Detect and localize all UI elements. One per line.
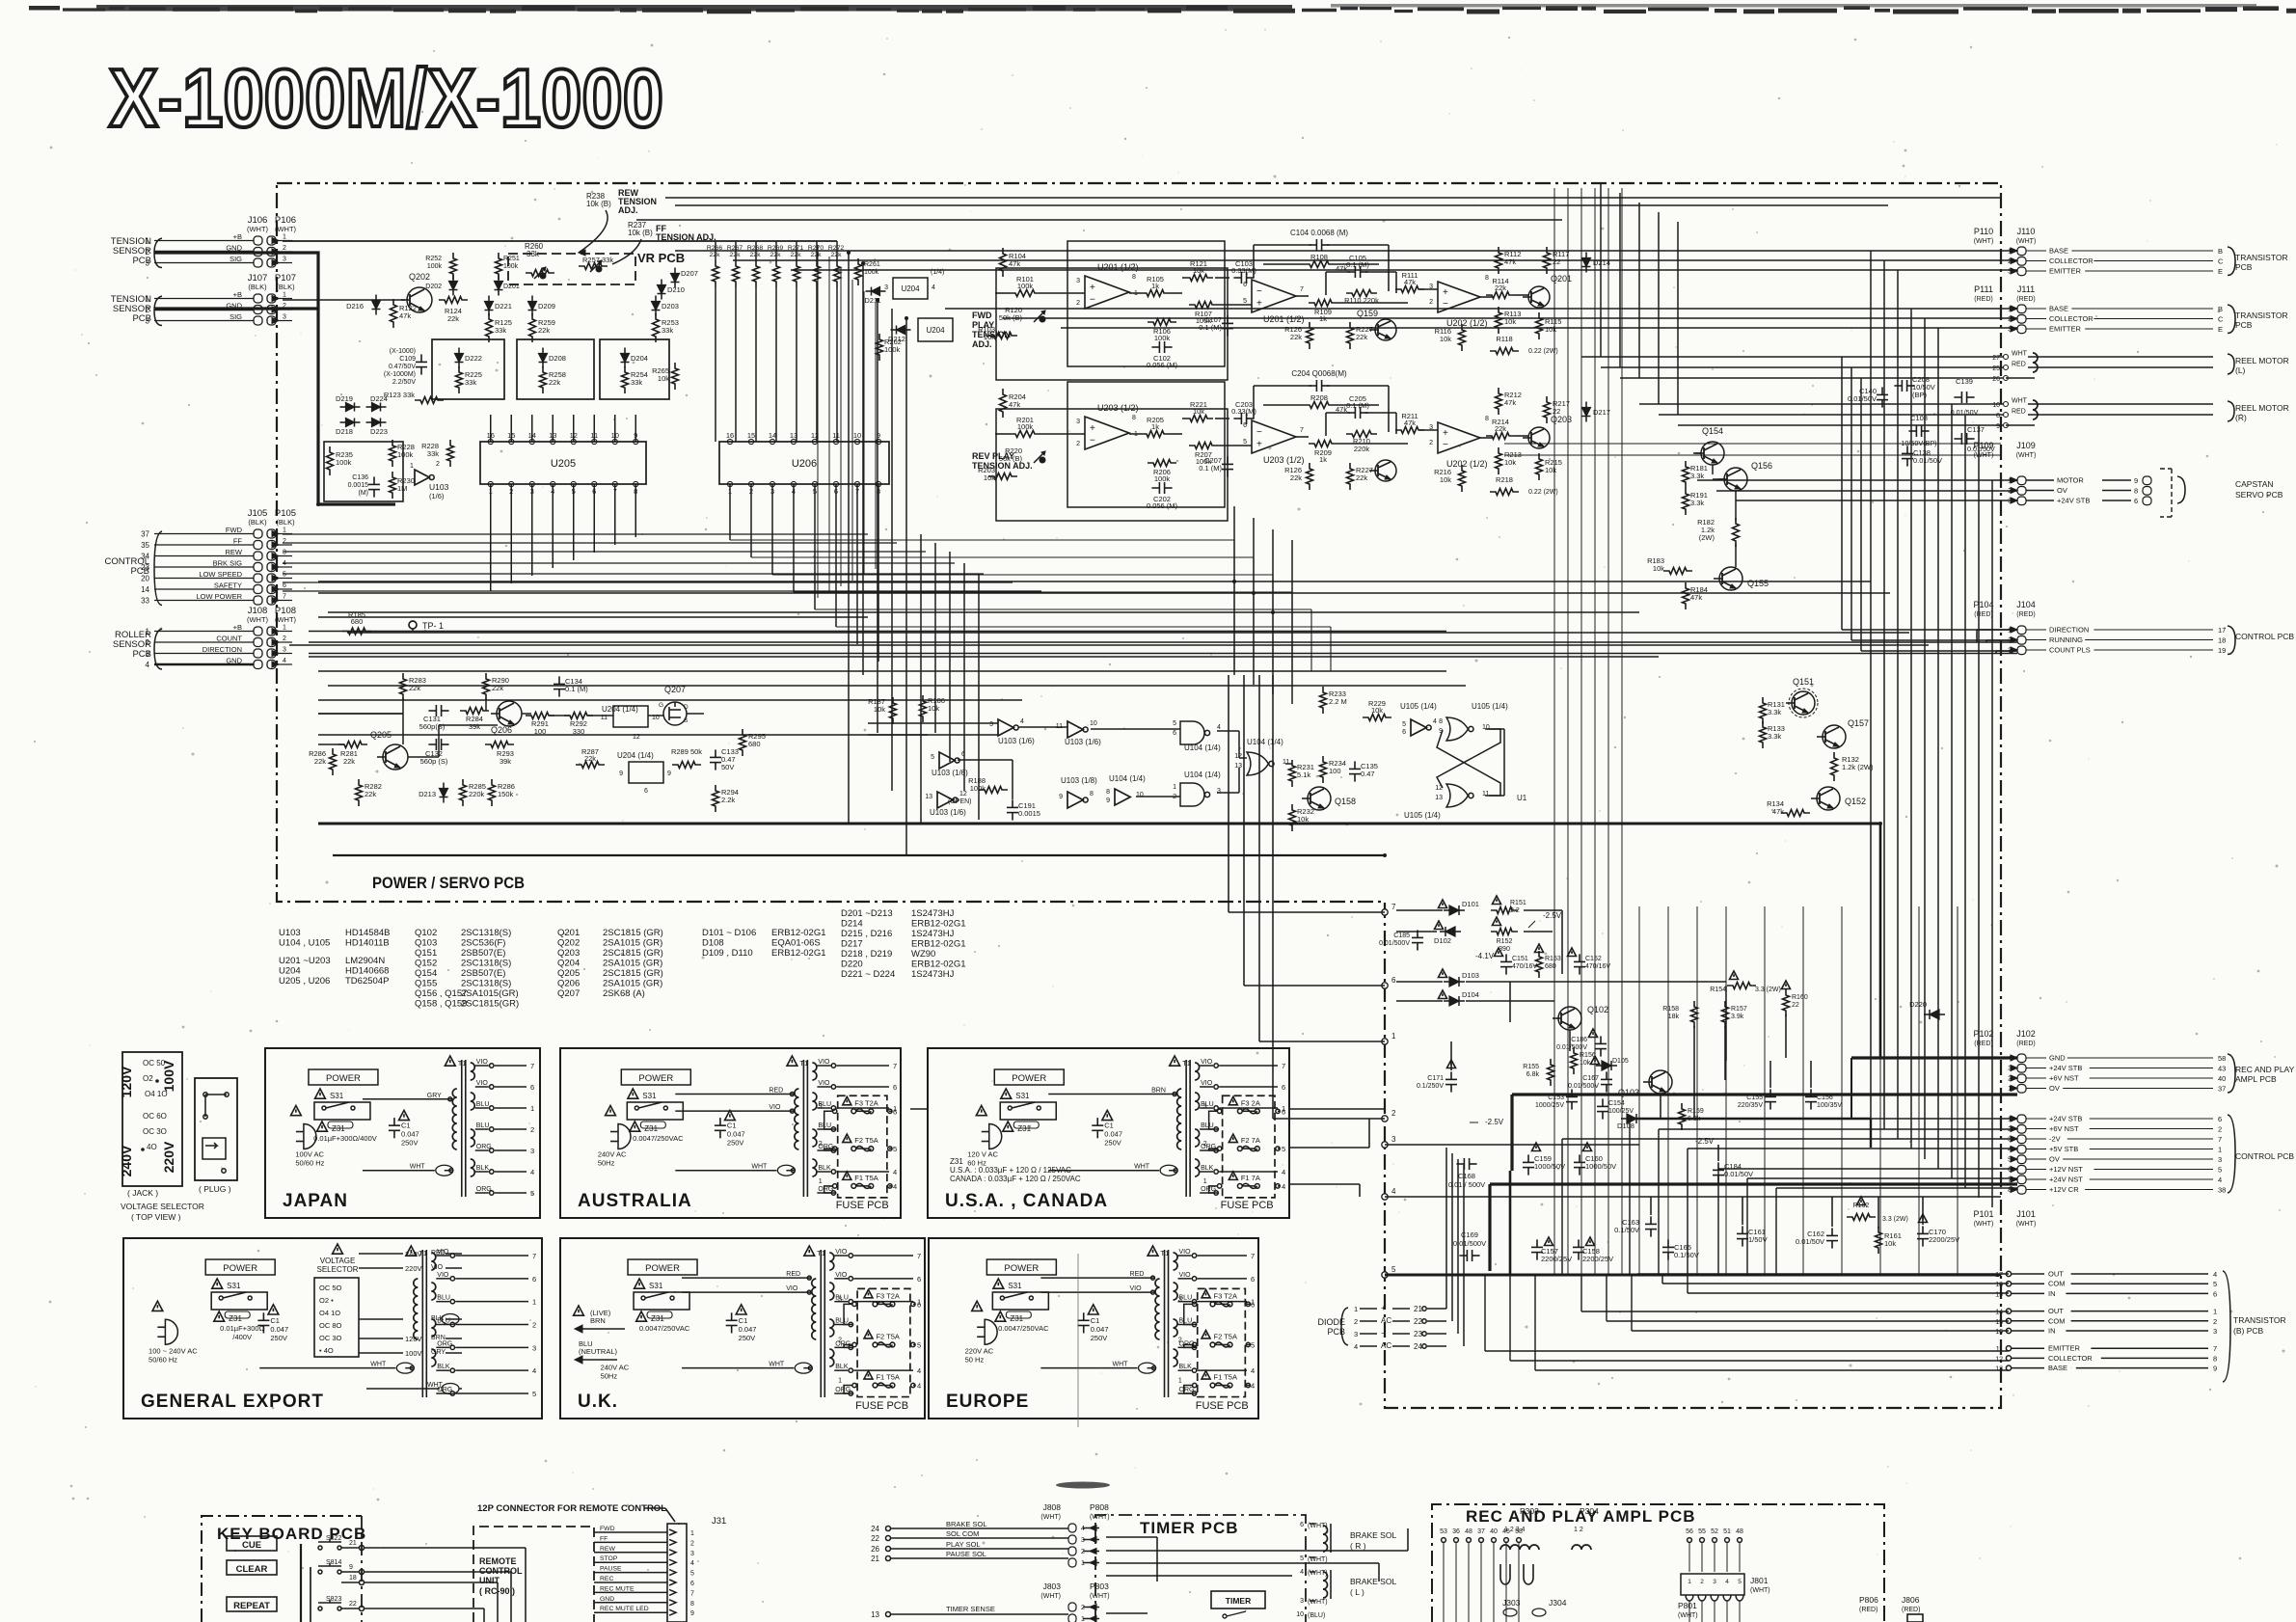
resistor R284 39k [460,708,489,715]
AUSTRALIA fuse out [889,1148,892,1149]
svg-text:FF: FF [233,537,243,546]
capacitor C139 0.01/50V [1954,396,1961,398]
svg-text:FUSE PCB: FUSE PCB [855,1400,908,1412]
svg-text:F3 T2A: F3 T2A [854,1098,878,1107]
svg-text:U201 ~U203: U201 ~U203 [279,956,331,966]
GENERAL EXPORT tap ORG 5 [436,1392,449,1394]
resistor R160 22 [1783,989,1790,1016]
svg-text:TIMER PCB: TIMER PCB [1140,1519,1239,1537]
capacitor C135 0.47 [1354,761,1356,769]
transistor-B row COLLECTOR 12 [2006,1356,2011,1361]
JAPAN tap BLU 1 [475,1107,489,1109]
svg-text:2SC1815 (GR): 2SC1815 (GR) [603,968,663,979]
svg-text:S31: S31 [649,1282,663,1290]
svg-text:18k: 18k [1668,1014,1680,1020]
svg-text:0.047: 0.047 [1104,1130,1122,1139]
connector row -2V [2017,1135,2026,1144]
svg-text:+B: +B [233,232,242,241]
JAPAN tap VIO 7 [475,1065,489,1067]
resistor R201 100k [1010,431,1040,438]
svg-text:POWER: POWER [638,1073,673,1084]
svg-text:FWD: FWD [600,1526,615,1532]
svg-text:1: 1 [838,1378,842,1385]
resistor R110 220k [1346,290,1377,297]
power section bus (thick) [1385,1274,2001,1277]
center fold smudge [1056,1482,1110,1489]
P303 coil [1500,1545,1539,1550]
svg-text:7: 7 [690,1590,694,1597]
svg-text:U104 (1/4): U104 (1/4) [1184,770,1221,779]
svg-text:BLU: BLU [437,1295,450,1302]
svg-text:1.2k (2W): 1.2k (2W) [1842,763,1874,771]
svg-text:D109 , D110: D109 , D110 [702,948,753,959]
wire FWD pin 37 [154,533,254,535]
svg-text:6: 6 [1282,1083,1285,1092]
capacitor C208 10/50V(BP) [1894,385,1902,387]
svg-text:U.S.A. : 0.033µF + 120 Ω /: U.S.A. : 0.033µF + 120 Ω / 125VAC [950,1166,1071,1175]
svg-text:9: 9 [1106,797,1110,804]
test point TP-1 [409,621,417,629]
svg-text:T1: T1 [458,1059,467,1068]
thick vertical right [1879,824,1882,1058]
svg-text:2SB507(E): 2SB507(E) [461,948,505,959]
svg-text:TIMER SENSE: TIMER SENSE [946,1605,995,1613]
svg-text:6: 6 [2134,497,2138,505]
svg-text:4: 4 [283,658,286,664]
svg-text:22k: 22k [1290,333,1302,341]
resistor R158 18k [1691,1001,1698,1028]
svg-text:4: 4 [532,1366,536,1375]
transistor-B row EMITTER 11 [2006,1346,2011,1351]
U.K. tap line 6 [853,1278,913,1280]
svg-text:VIO: VIO [476,1059,489,1066]
svg-text:F3 2A: F3 2A [1241,1098,1260,1107]
label REC AND PLAY AMPL PCB [2228,1054,2235,1093]
EUROPE tap line 6 [1198,1278,1247,1280]
svg-text:330: 330 [573,727,585,736]
U.S.A. , CANADA tap VIO 7 [1200,1065,1213,1067]
svg-text:HD140668: HD140668 [345,966,389,977]
svg-text:18: 18 [1995,1282,2003,1288]
svg-text:+5V STB: +5V STB [2049,1145,2078,1153]
resistor R187 10k [890,697,897,724]
AUSTRALIA tap to fuse [824,1186,837,1193]
svg-text:2: 2 [1700,1579,1704,1585]
svg-text:VOLTAGE: VOLTAGE [320,1257,356,1265]
svg-text:O4 1O: O4 1O [145,1090,168,1098]
svg-text:39k: 39k [500,757,511,766]
svg-text:10k: 10k [984,333,995,341]
diode D221 [485,302,494,311]
svg-text:33k: 33k [527,250,540,258]
AUSTRALIA tap VIO 6 [817,1086,830,1088]
svg-text:C186: C186 [1571,1037,1587,1043]
svg-text:O2: O2 [143,1074,153,1083]
svg-text:C104 0.0068 (M): C104 0.0068 (M) [1290,229,1348,237]
svg-text:0.047: 0.047 [401,1130,419,1139]
diode D224 [372,403,381,412]
svg-text:50V: 50V [721,763,734,771]
JAPAN wire GRY [363,1098,452,1100]
svg-text:47k: 47k [1504,398,1516,407]
capacitor C137 0.01/50V [1954,438,1961,440]
logic wires [868,722,998,724]
svg-text:TRANSISTOR: TRANSISTOR [2235,311,2288,320]
svg-text:9: 9 [1059,794,1063,800]
AUSTRALIA tap BLU 1 [817,1107,830,1109]
svg-text:5.1k: 5.1k [1297,770,1310,779]
svg-text:(L): (L) [2235,365,2246,375]
svg-text:U103 (1/6): U103 (1/6) [1065,738,1101,746]
svg-text:9: 9 [667,770,671,777]
svg-text:6.8k: 6.8k [1526,1071,1540,1078]
svg-text:BRAKE SOL: BRAKE SOL [946,1520,987,1528]
svg-text:2: 2 [1178,1337,1182,1343]
svg-text:47k: 47k [1504,257,1516,266]
svg-text:1: 1 [690,1530,694,1537]
U.S.A. , CANADA tap VIO 6 [1200,1086,1213,1088]
wire REW pin 34 [154,555,254,557]
svg-text:C1: C1 [1104,1122,1114,1130]
svg-text:J803: J803 [1043,1581,1062,1591]
svg-text:REW: REW [600,1546,615,1553]
svg-text:+12V NST: +12V NST [2049,1165,2083,1174]
GENERAL EXPORT tap line 7 [455,1255,528,1257]
svg-text:C136: C136 [352,474,368,481]
svg-text:R159: R159 [1688,1108,1704,1115]
resistor R183 10k [1663,568,1692,575]
svg-text:PCB: PCB [2235,320,2253,330]
svg-text:Q158 , Q159: Q158 , Q159 [415,999,467,1010]
channel enclosure wires [1067,241,1225,366]
svg-text:VIO: VIO [769,1104,781,1111]
JAPAN POWER switch box [309,1069,378,1085]
svg-text:LM2904N: LM2904N [345,956,385,966]
svg-text:+: + [1256,299,1262,310]
svg-text:D220: D220 [841,960,863,970]
resistor ladder R266-R272 22k [713,260,719,287]
capacitor C154 100/25V [1602,1098,1604,1106]
transistor Q159 [1375,319,1396,340]
svg-text:13: 13 [871,1610,879,1619]
svg-text:VIO: VIO [431,1264,444,1271]
EUROPE WHT wire + filter [1040,1367,1137,1369]
svg-text:0.1 (M): 0.1 (M) [565,685,588,693]
svg-text:0.1 (M): 0.1 (M) [1199,464,1222,473]
diode D105 [1602,1061,1611,1070]
U.S.A. , CANADA fuse F2 7A [1237,1147,1242,1151]
svg-text:+24V STB: +24V STB [2049,1115,2082,1123]
label CONTROL PCB [2228,626,2235,655]
svg-text:BRAKE SOL: BRAKE SOL [1350,1577,1396,1586]
label TRANSISTOR (B) PCB [2223,1271,2230,1382]
svg-text:6: 6 [1251,1275,1255,1284]
svg-text:C1: C1 [727,1122,737,1130]
capacitor C161 1/50V [1742,1226,1743,1233]
reel motor wire 9 [2004,423,2009,428]
svg-text:U202 (1/2): U202 (1/2) [1446,459,1488,469]
svg-text:HD14584B: HD14584B [345,928,390,938]
resistor R106 100k [1148,319,1176,326]
svg-text:WHT: WHT [2012,351,2028,358]
EUROPE fuse F2 T5A [1210,1342,1215,1347]
AUSTRALIA box [560,1048,901,1218]
svg-text:2SA1015 (GR): 2SA1015 (GR) [603,938,662,949]
svg-text:D: D [684,704,689,711]
buffer U104b [1115,789,1130,805]
connector row OV [2017,1155,2026,1164]
AUSTRALIA tap ORG 5 [817,1192,830,1194]
svg-text:10k: 10k [1440,475,1451,484]
svg-text:O4 1O: O4 1O [319,1309,340,1317]
transistor Q207 FET [663,702,687,725]
svg-text:(WHT): (WHT) [247,615,269,624]
resistor R153 680 [1536,951,1543,978]
power wires grid [1396,909,1443,911]
diode D203 [652,302,661,311]
svg-text:WHT: WHT [427,1382,444,1389]
svg-text:R162: R162 [1853,1203,1870,1209]
svg-text:U204: U204 [279,966,301,977]
svg-text:3: 3 [690,1551,694,1557]
resistor R181 3.3k [1683,461,1689,488]
svg-text:BASE: BASE [2049,247,2068,256]
svg-text:2SA1015(GR): 2SA1015(GR) [461,988,519,999]
svg-text:( RC-90 ): ( RC-90 ) [479,1586,515,1596]
svg-text:5: 5 [532,1390,536,1398]
svg-text:T1: T1 [817,1249,825,1257]
capacitor C151 470/16V [1505,954,1507,961]
inverter U103e [1067,792,1083,808]
svg-text:R208: R208 [1310,393,1328,402]
connector row +12V CR [2017,1186,2026,1195]
resistor R157 3.9k [1722,1001,1729,1028]
GENERAL EXPORT tap line 1 [455,1301,528,1303]
svg-text:3.3k: 3.3k [1768,708,1781,716]
svg-text:E: E [2218,267,2223,276]
svg-text:2: 2 [1076,300,1080,307]
connector row +24V STB [2017,1065,2026,1073]
svg-text:D208: D208 [549,354,566,363]
svg-text:WHT: WHT [769,1362,785,1368]
svg-text:U103 (1/8): U103 (1/8) [1061,776,1097,785]
svg-text:U205: U205 [551,458,576,470]
capacitor C103/C203 0.33 [1233,277,1241,279]
resistor R191 3.3k [1683,488,1689,515]
svg-text:S822: S822 [326,1535,341,1542]
svg-text:22k: 22k [549,378,560,387]
svg-text:2: 2 [1081,1549,1085,1555]
NAND U104a [1180,721,1204,744]
svg-text:1: 1 [1688,1579,1691,1585]
svg-text:45: 45 [1502,1528,1510,1535]
svg-text:Q203: Q203 [1551,415,1572,424]
svg-text:(WHT): (WHT) [1974,238,1994,245]
wire DIRECTION pin 3 [154,653,254,655]
transistor Q152 [1817,787,1840,810]
AUSTRALIA tap to fuse [824,1149,837,1150]
AUSTRALIA mains plug [618,1124,631,1149]
svg-text:10k (B): 10k (B) [628,229,653,237]
svg-text:3: 3 [989,721,993,728]
svg-text:2: 2 [283,245,286,252]
svg-text:B: B [2218,305,2223,313]
svg-text:FWD: FWD [972,311,992,320]
svg-text:220k: 220k [1354,445,1370,453]
svg-text:U104 (1/4): U104 (1/4) [1247,738,1283,746]
svg-text:B: B [2218,247,2223,256]
svg-text:C151: C151 [1512,956,1528,962]
svg-text:CONTROL PCB: CONTROL PCB [2235,632,2294,641]
svg-text:58: 58 [2218,1054,2226,1063]
power pins on boundary [1382,909,1388,915]
capacitor C105/C205 0.1 [1347,271,1355,273]
svg-text:2: 2 [838,1337,842,1343]
svg-text:Q202: Q202 [557,938,580,949]
svg-text:240V: 240V [119,1145,134,1176]
svg-text:0.01/500V: 0.01/500V [1556,1044,1587,1051]
U.S.A. , CANADA box [928,1048,1289,1218]
svg-text:R289 50k: R289 50k [671,747,702,756]
svg-text:D201 ~D213: D201 ~D213 [841,908,893,919]
svg-text:WHT: WHT [410,1164,426,1171]
remote signal REC MUTE LED [594,1611,667,1613]
svg-text:CAPSTAN: CAPSTAN [2235,479,2274,489]
GENERAL EXPORT tap line 3 [455,1346,528,1348]
U.S.A. , CANADA C1 capacitor [1096,1118,1098,1125]
label REEL MOTOR (R) [2228,401,2234,421]
svg-text:P304: P304 [1580,1506,1599,1516]
svg-text:2SC1815 (GR): 2SC1815 (GR) [603,928,663,938]
svg-text:S823: S823 [326,1596,341,1603]
svg-text:12P CONNECTOR FOR REMOTE C: 12P CONNECTOR FOR REMOTE CONTROL [477,1503,666,1514]
svg-text:1: 1 [1354,1305,1358,1313]
svg-text:WHT: WHT [2012,398,2028,405]
svg-text:8: 8 [690,1601,694,1608]
svg-text:1000/25V: 1000/25V [1535,1102,1564,1109]
svg-text:KEY BOARD PCB: KEY BOARD PCB [217,1525,366,1543]
IC U204 (1/4) servo a [613,706,648,727]
U.K. switch S31 [635,1279,645,1288]
svg-text:PLAY SOL: PLAY SOL [946,1540,981,1549]
IC U204 (1/4) servo b [629,762,663,783]
svg-text:0.22 (2W): 0.22 (2W) [1528,489,1558,496]
svg-text:PCB: PCB [130,566,149,577]
svg-text:4: 4 [1282,1168,1285,1176]
svg-text:0.01/500V: 0.01/500V [1379,940,1410,947]
diode D108 [1627,1114,1636,1123]
svg-text:0.01/50V: 0.01/50V [1796,1237,1824,1246]
svg-text:0.1/50V: 0.1/50V [1614,1226,1639,1234]
resistor R211 47k [1395,427,1424,434]
svg-text:C1: C1 [270,1316,280,1325]
svg-text:6: 6 [893,1107,897,1116]
svg-text:10k: 10k [1653,564,1664,573]
keyboard extra row 18 [341,1581,359,1583]
svg-text:5: 5 [1243,298,1247,305]
GENERAL EXPORT WHT wire + filter [259,1367,395,1369]
svg-text:R160: R160 [1792,994,1808,1001]
svg-text:15: 15 [1995,1319,2003,1326]
svg-text:U104 , U105: U104 , U105 [279,938,330,949]
svg-text:T1: T1 [1161,1249,1170,1257]
svg-text:50 Hz: 50 Hz [965,1356,985,1365]
svg-text:6: 6 [530,1083,534,1092]
svg-text:C1: C1 [401,1122,411,1130]
resistor R113 10k [1496,307,1502,334]
svg-text:O2 •: O2 • [319,1296,334,1305]
svg-text:P803: P803 [1090,1581,1109,1591]
svg-text:0.047: 0.047 [727,1130,745,1139]
svg-text:4: 4 [1251,1366,1255,1375]
svg-text:RED: RED [786,1271,800,1278]
svg-text:3: 3 [1217,788,1221,795]
svg-text:Q201: Q201 [1551,274,1572,284]
svg-text:Q202: Q202 [409,272,430,282]
svg-text:D221 ~ D224: D221 ~ D224 [841,969,895,980]
svg-text:2: 2 [2218,1125,2222,1134]
svg-text:23: 23 [1414,1330,1422,1338]
svg-text:C137: C137 [1967,425,1985,434]
svg-text:BRAKE SOL: BRAKE SOL [1350,1530,1396,1540]
GENERAL EXPORT tap VIO 6 [436,1278,449,1280]
svg-text:22k: 22k [343,757,355,766]
U.S.A. , CANADA tap ORG 3 [1200,1149,1213,1151]
svg-text:JAPAN: JAPAN [283,1191,348,1211]
svg-text:1: 1 [819,1178,823,1185]
svg-text:4: 4 [917,1366,921,1375]
svg-text:U103 (1/6): U103 (1/6) [932,769,968,777]
NAND U104c [1180,783,1204,806]
svg-text:10: 10 [1090,720,1097,727]
svg-text:100: 100 [534,727,547,736]
svg-text:−: − [1381,1329,1386,1338]
svg-text:100k: 100k [397,450,414,459]
AUSTRALIA tap line 6 [836,1086,889,1088]
svg-text:8: 8 [1485,416,1489,422]
wire LOW POWER pin 33 [154,600,254,602]
wire +B pin 1 [154,240,254,242]
op-amp U202 (1/2) [1438,282,1480,312]
transistor Q154 [1701,442,1724,465]
svg-text:(RED): (RED) [1974,296,1992,303]
svg-text:WHT: WHT [751,1164,768,1171]
connector row EMITTER [2017,267,2026,276]
svg-text:VIO: VIO [1130,1285,1143,1292]
U.S.A. , CANADA wire BRN [1048,1094,1176,1095]
J104 wire [1842,629,2017,631]
svg-text:6: 6 [2218,1115,2222,1123]
transistor Q202 [407,287,432,312]
svg-text:0.22 (2W): 0.22 (2W) [1528,348,1558,355]
svg-text:(RED): (RED) [2016,611,2035,618]
svg-text:2: 2 [1076,441,1080,447]
connector row +6V NST [2017,1125,2026,1134]
svg-text:D108: D108 [702,938,724,949]
wire to right connector [1003,317,2017,319]
capacitor C131 560p(S) [428,710,436,712]
svg-text:24: 24 [1414,1342,1422,1351]
label CONTROL PCB [2228,1115,2235,1193]
svg-text:36: 36 [1452,1528,1460,1535]
svg-text:F3 T2A: F3 T2A [1214,1291,1237,1300]
wire GND pin 2 [154,251,254,254]
svg-text:2SA1015 (GR): 2SA1015 (GR) [603,959,662,969]
GE selector wires [359,1253,403,1255]
svg-text:100k: 100k [1017,282,1034,290]
svg-text:(WHT): (WHT) [1308,1570,1328,1577]
svg-text:RED: RED [769,1088,783,1095]
